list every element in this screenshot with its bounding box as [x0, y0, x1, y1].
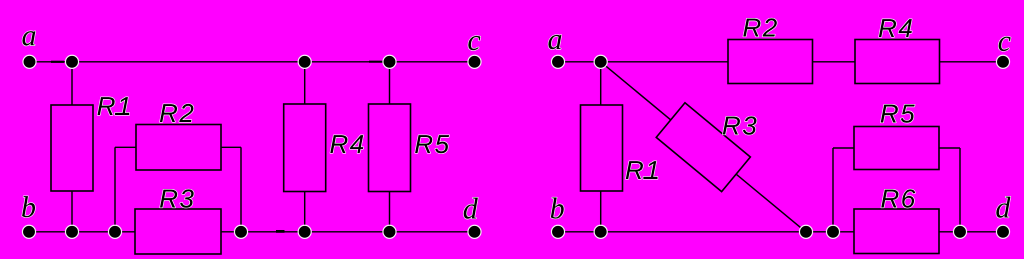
resistor R3 (left circuit): [135, 209, 221, 254]
wire R2 right vertical stub: [240, 147, 242, 232]
wire R5 left vertical stub (right): [832, 148, 834, 232]
resistor R4 (right circuit): [855, 40, 940, 84]
label R3: [160, 189, 194, 207]
junction bottom rail / R1 (right): [594, 225, 607, 238]
node c terminal (right): [996, 55, 1009, 68]
junction bottom rail / R4 (left): [298, 225, 311, 238]
wire top rail a-c (right): [558, 61, 1003, 63]
node d label (left): [464, 198, 478, 219]
resistor R5 (right circuit): [854, 127, 939, 170]
wire R1 vertical (right): [600, 62, 602, 232]
junction top rail / R1-R3 (right): [594, 55, 607, 68]
node d terminal (left): [468, 225, 481, 238]
node a terminal (right): [551, 55, 564, 68]
wire R2 left horizontal lead: [115, 146, 136, 148]
wire R5 top lead: [389, 62, 391, 104]
junction bottom rail / R2-R3 right (left): [234, 225, 247, 238]
label R5: [415, 135, 449, 153]
label R3 (right): [723, 116, 757, 134]
wire artifact segment left of R5 top junction: [369, 61, 385, 63]
junction bottom rail / R5-R6 left (right): [826, 225, 839, 238]
junction bottom rail / R3 diagonal (right): [799, 225, 812, 238]
wire artifact segment on a-junction wire: [51, 61, 64, 63]
label R4 (right): [879, 19, 912, 37]
wire R4 top lead: [304, 62, 306, 104]
resistor R6 (right circuit): [854, 209, 939, 254]
node d terminal (right): [996, 225, 1009, 238]
node c terminal (left): [468, 55, 481, 68]
node c label (left): [468, 36, 480, 50]
label R2: [160, 104, 194, 122]
wire R5 bottom lead: [389, 192, 391, 232]
node a label (left): [22, 31, 35, 45]
wire bottom rail b-d (right): [558, 231, 1003, 233]
wire R5 left horizontal lead (right): [833, 147, 854, 149]
wire R1 bottom lead: [71, 191, 73, 232]
junction bottom rail / R5 (left): [383, 225, 396, 238]
node d label (right): [996, 197, 1010, 218]
junction top rail / R5 (left): [383, 55, 396, 68]
wire R1 top lead: [71, 62, 73, 105]
junction bottom rail / R1 (left): [65, 225, 78, 238]
resistor R2 (left circuit): [136, 125, 221, 171]
resistor R2 (right circuit): [728, 40, 813, 84]
junction bottom rail / R2-R3 left (left): [108, 225, 121, 238]
node b terminal (left): [22, 225, 35, 238]
wire R4 bottom lead: [304, 192, 306, 232]
node b label (right): [551, 197, 564, 218]
label R1: [98, 97, 130, 115]
label R1 (right): [626, 161, 658, 179]
node a terminal (left): [23, 55, 36, 68]
wire artifact dash on bottom rail: [276, 230, 285, 233]
label R2 (right): [743, 18, 777, 36]
node a label (right): [548, 35, 561, 49]
resistor R1 (right circuit): [581, 105, 623, 191]
label R4: [330, 135, 363, 153]
wire R2 right horizontal lead: [221, 146, 241, 148]
resistor R5 (left circuit): [369, 104, 411, 192]
wire R3 diagonal (right): [601, 62, 806, 232]
wire R5 right vertical stub (right): [959, 148, 961, 232]
wire R2 left vertical stub: [114, 147, 116, 232]
wire top rail a-c: [30, 61, 475, 63]
junction top rail / R1 (left): [65, 55, 78, 68]
resistor R1 (left circuit): [51, 105, 93, 191]
label R5 (right): [881, 105, 915, 123]
resistor R3 rotated (right circuit): [656, 103, 750, 192]
resistor R4 (left circuit): [284, 104, 326, 192]
wire R5 right horizontal lead (right): [939, 147, 960, 149]
node b terminal (right): [551, 225, 564, 238]
junction bottom rail / R5-R6 right (right): [953, 225, 966, 238]
junction top rail / R4 (left): [298, 55, 311, 68]
node b label (left): [22, 196, 35, 217]
label R6 (right): [881, 189, 915, 207]
wire bottom rail b-d: [29, 231, 475, 233]
node c label (right): [999, 37, 1011, 51]
